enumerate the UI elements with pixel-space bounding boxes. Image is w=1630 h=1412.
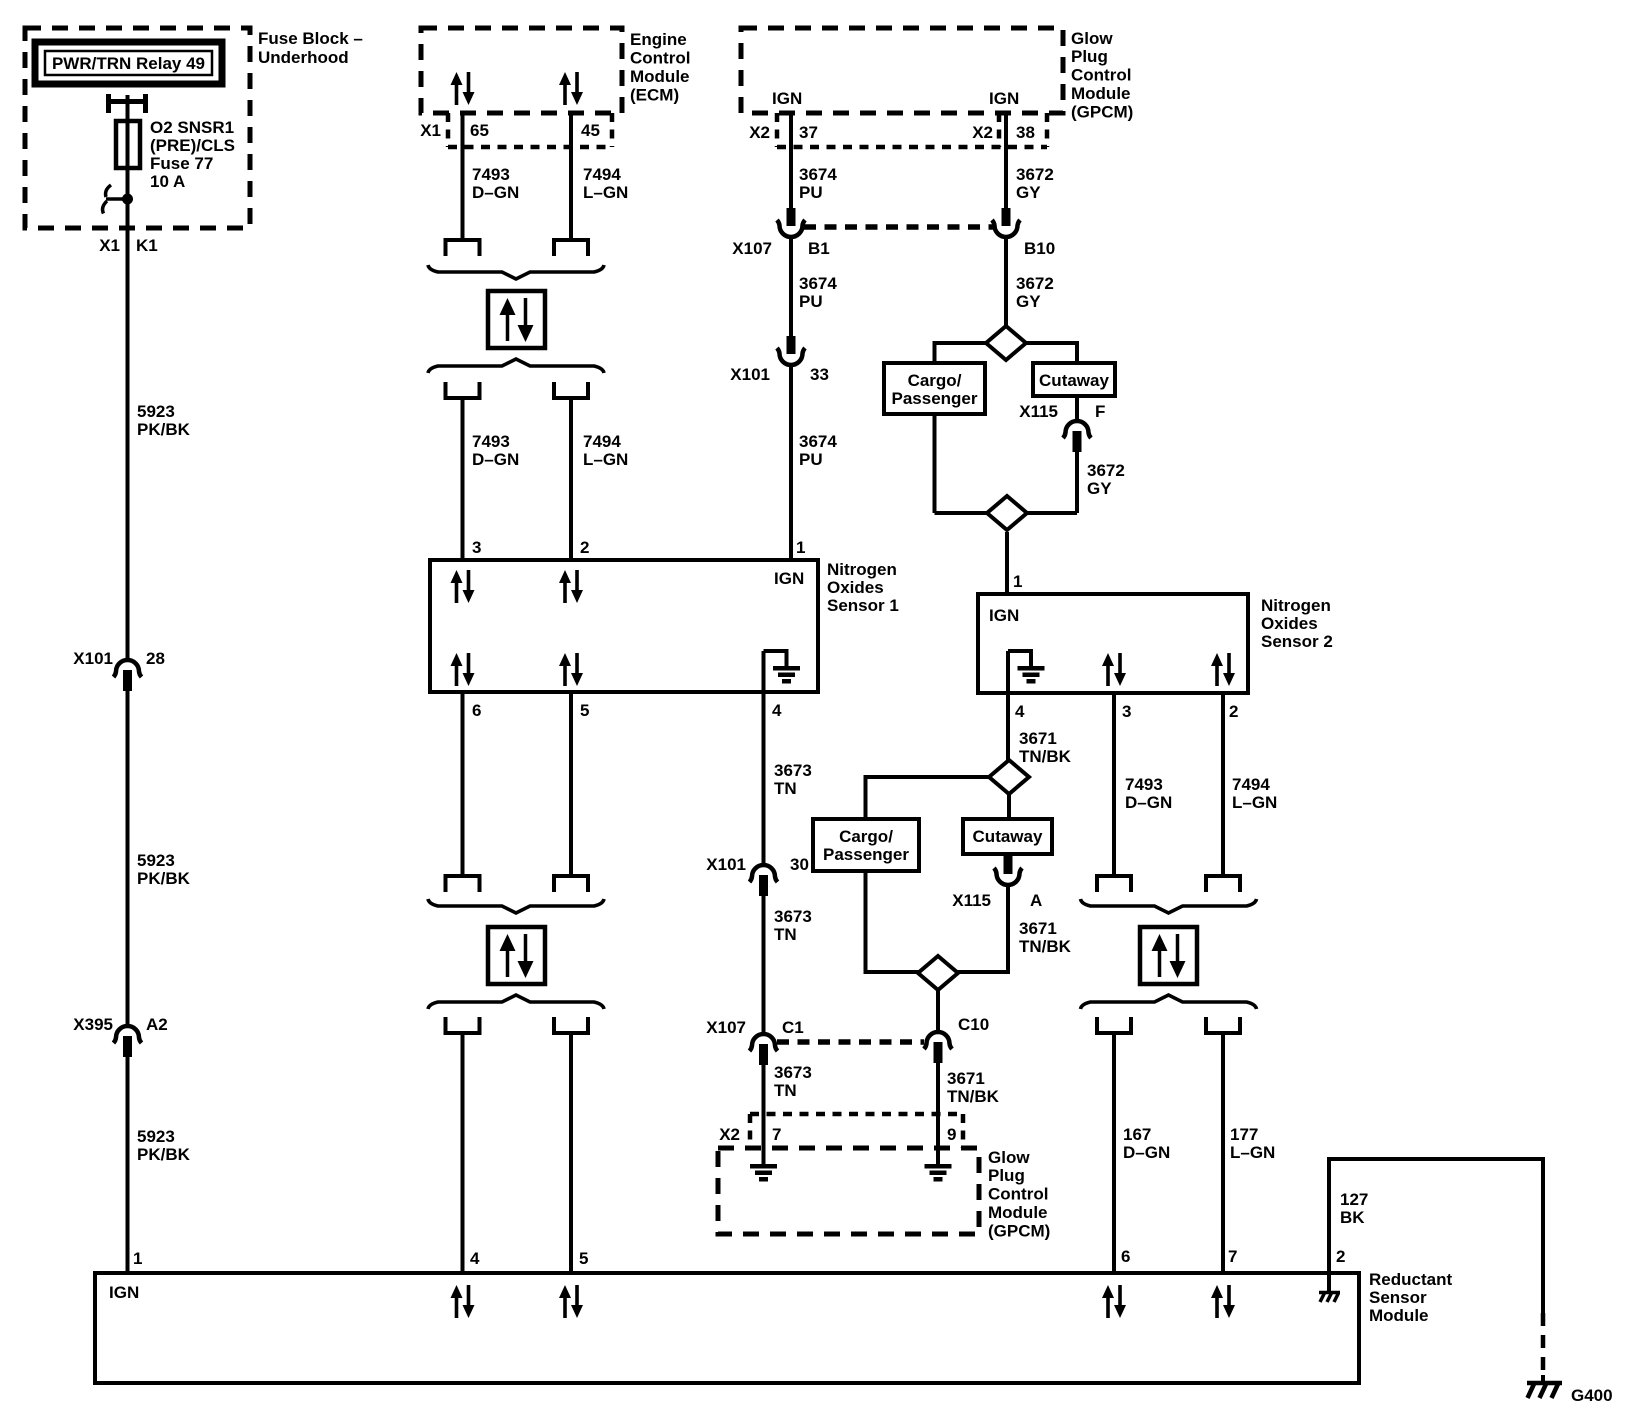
svg-text:3673: 3673 bbox=[774, 1063, 812, 1082]
svg-text:127: 127 bbox=[1340, 1190, 1368, 1209]
svg-text:PK/BK: PK/BK bbox=[137, 869, 191, 888]
svg-text:C10: C10 bbox=[958, 1015, 989, 1034]
svg-text:X107: X107 bbox=[706, 1018, 746, 1037]
svg-text:Module: Module bbox=[1369, 1306, 1429, 1325]
svg-text:7493: 7493 bbox=[1125, 775, 1163, 794]
svg-text:6: 6 bbox=[472, 701, 481, 720]
svg-text:IGN: IGN bbox=[774, 569, 804, 588]
svg-text:G400: G400 bbox=[1571, 1386, 1613, 1405]
svg-text:X115: X115 bbox=[952, 891, 991, 910]
svg-text:Glow: Glow bbox=[988, 1148, 1030, 1167]
svg-text:Sensor: Sensor bbox=[1369, 1288, 1427, 1307]
svg-text:D–GN: D–GN bbox=[1125, 793, 1172, 812]
svg-text:L–GN: L–GN bbox=[1230, 1143, 1275, 1162]
svg-text:3672: 3672 bbox=[1016, 274, 1054, 293]
svg-text:Engine: Engine bbox=[630, 30, 687, 49]
svg-text:X2: X2 bbox=[749, 123, 770, 142]
svg-text:Passenger: Passenger bbox=[823, 845, 909, 864]
svg-text:Plug: Plug bbox=[1071, 47, 1108, 66]
svg-text:5923: 5923 bbox=[137, 402, 175, 421]
svg-text:X107: X107 bbox=[732, 239, 772, 258]
svg-text:PU: PU bbox=[799, 292, 823, 311]
svg-text:7493: 7493 bbox=[472, 165, 510, 184]
svg-text:3674: 3674 bbox=[799, 165, 837, 184]
svg-text:IGN: IGN bbox=[989, 606, 1019, 625]
svg-text:D–GN: D–GN bbox=[1123, 1143, 1170, 1162]
svg-text:PWR/TRN Relay 49: PWR/TRN Relay 49 bbox=[52, 54, 205, 73]
svg-text:(PRE)/CLS: (PRE)/CLS bbox=[150, 136, 235, 155]
svg-text:Fuse Block –: Fuse Block – bbox=[258, 29, 363, 48]
svg-text:O2 SNSR1: O2 SNSR1 bbox=[150, 118, 234, 137]
svg-text:X1: X1 bbox=[420, 121, 441, 140]
svg-text:A2: A2 bbox=[146, 1015, 168, 1034]
svg-text:3672: 3672 bbox=[1087, 461, 1125, 480]
svg-text:Plug: Plug bbox=[988, 1166, 1025, 1185]
svg-text:BK: BK bbox=[1340, 1208, 1365, 1227]
svg-text:B10: B10 bbox=[1024, 239, 1055, 258]
svg-text:A: A bbox=[1030, 891, 1042, 910]
svg-text:(GPCM): (GPCM) bbox=[988, 1222, 1050, 1241]
svg-text:(ECM): (ECM) bbox=[630, 86, 679, 105]
svg-text:(GPCM): (GPCM) bbox=[1071, 103, 1133, 122]
svg-text:167: 167 bbox=[1123, 1125, 1151, 1144]
svg-text:7494: 7494 bbox=[1232, 775, 1270, 794]
svg-text:L–GN: L–GN bbox=[583, 450, 628, 469]
svg-text:7: 7 bbox=[772, 1125, 781, 1144]
svg-text:3: 3 bbox=[472, 538, 481, 557]
svg-text:7: 7 bbox=[1228, 1247, 1237, 1266]
svg-text:Module: Module bbox=[630, 67, 690, 86]
svg-text:D–GN: D–GN bbox=[472, 450, 519, 469]
svg-text:3: 3 bbox=[1122, 702, 1131, 721]
svg-text:3674: 3674 bbox=[799, 274, 837, 293]
svg-text:TN: TN bbox=[774, 779, 797, 798]
svg-text:28: 28 bbox=[146, 649, 165, 668]
svg-text:38: 38 bbox=[1016, 123, 1035, 142]
svg-text:45: 45 bbox=[581, 121, 600, 140]
svg-text:PK/BK: PK/BK bbox=[137, 420, 191, 439]
svg-text:7494: 7494 bbox=[583, 165, 621, 184]
svg-text:5923: 5923 bbox=[137, 1127, 175, 1146]
svg-text:Cutaway: Cutaway bbox=[973, 827, 1043, 846]
svg-text:IGN: IGN bbox=[109, 1283, 139, 1302]
svg-text:Cargo/: Cargo/ bbox=[908, 371, 962, 390]
svg-text:7493: 7493 bbox=[472, 432, 510, 451]
svg-text:B1: B1 bbox=[808, 239, 830, 258]
svg-text:X101: X101 bbox=[730, 365, 770, 384]
svg-text:IGN: IGN bbox=[772, 89, 802, 108]
svg-text:X395: X395 bbox=[73, 1015, 113, 1034]
svg-text:2: 2 bbox=[1229, 702, 1238, 721]
svg-text:X101: X101 bbox=[706, 855, 746, 874]
svg-text:K1: K1 bbox=[136, 236, 158, 255]
svg-text:2: 2 bbox=[580, 538, 589, 557]
svg-text:10 A: 10 A bbox=[150, 172, 185, 191]
svg-text:3674: 3674 bbox=[799, 432, 837, 451]
svg-text:Passenger: Passenger bbox=[892, 389, 978, 408]
svg-text:F: F bbox=[1095, 402, 1105, 421]
svg-text:PU: PU bbox=[799, 183, 823, 202]
svg-text:Nitrogen: Nitrogen bbox=[827, 560, 897, 579]
svg-text:6: 6 bbox=[1121, 1247, 1130, 1266]
svg-text:5923: 5923 bbox=[137, 851, 175, 870]
svg-text:3673: 3673 bbox=[774, 907, 812, 926]
svg-text:PU: PU bbox=[799, 450, 823, 469]
svg-text:TN/BK: TN/BK bbox=[1019, 747, 1072, 766]
svg-text:3671: 3671 bbox=[947, 1069, 985, 1088]
svg-text:GY: GY bbox=[1016, 183, 1041, 202]
svg-text:TN: TN bbox=[774, 1081, 797, 1100]
svg-text:1: 1 bbox=[133, 1249, 142, 1268]
svg-text:3673: 3673 bbox=[774, 761, 812, 780]
svg-text:7494: 7494 bbox=[583, 432, 621, 451]
svg-text:2: 2 bbox=[1336, 1247, 1345, 1266]
svg-text:X2: X2 bbox=[719, 1125, 740, 1144]
svg-text:Sensor 2: Sensor 2 bbox=[1261, 632, 1333, 651]
svg-text:Module: Module bbox=[988, 1203, 1048, 1222]
svg-text:GY: GY bbox=[1016, 292, 1041, 311]
svg-text:Glow: Glow bbox=[1071, 29, 1113, 48]
svg-text:3671: 3671 bbox=[1019, 729, 1057, 748]
svg-text:X1: X1 bbox=[99, 236, 120, 255]
svg-text:Underhood: Underhood bbox=[258, 48, 349, 67]
svg-text:4: 4 bbox=[470, 1249, 480, 1268]
svg-text:1: 1 bbox=[796, 538, 805, 557]
svg-text:5: 5 bbox=[579, 1249, 588, 1268]
svg-text:TN: TN bbox=[774, 925, 797, 944]
svg-text:Control: Control bbox=[630, 49, 690, 68]
svg-text:37: 37 bbox=[799, 123, 818, 142]
svg-text:TN/BK: TN/BK bbox=[1019, 937, 1072, 956]
svg-text:Control: Control bbox=[1071, 66, 1131, 85]
svg-text:5: 5 bbox=[580, 701, 589, 720]
svg-text:X115: X115 bbox=[1019, 402, 1058, 421]
svg-text:9: 9 bbox=[947, 1125, 956, 1144]
svg-text:Reductant: Reductant bbox=[1369, 1270, 1452, 1289]
svg-text:4: 4 bbox=[772, 701, 782, 720]
svg-text:X2: X2 bbox=[972, 123, 993, 142]
svg-text:177: 177 bbox=[1230, 1125, 1258, 1144]
svg-text:Sensor 1: Sensor 1 bbox=[827, 596, 899, 615]
svg-text:Cargo/: Cargo/ bbox=[839, 827, 893, 846]
svg-text:3671: 3671 bbox=[1019, 919, 1057, 938]
svg-text:IGN: IGN bbox=[989, 89, 1019, 108]
svg-text:TN/BK: TN/BK bbox=[947, 1087, 1000, 1106]
svg-text:L–GN: L–GN bbox=[583, 183, 628, 202]
svg-text:3672: 3672 bbox=[1016, 165, 1054, 184]
svg-text:GY: GY bbox=[1087, 479, 1112, 498]
svg-text:Fuse 77: Fuse 77 bbox=[150, 154, 213, 173]
svg-text:C1: C1 bbox=[782, 1018, 804, 1037]
svg-text:X101: X101 bbox=[73, 649, 113, 668]
svg-text:1: 1 bbox=[1013, 572, 1022, 591]
svg-text:Module: Module bbox=[1071, 84, 1131, 103]
svg-text:L–GN: L–GN bbox=[1232, 793, 1277, 812]
svg-text:PK/BK: PK/BK bbox=[137, 1145, 191, 1164]
svg-text:Control: Control bbox=[988, 1185, 1048, 1204]
svg-text:65: 65 bbox=[470, 121, 489, 140]
svg-text:4: 4 bbox=[1015, 702, 1025, 721]
svg-text:Oxides: Oxides bbox=[1261, 614, 1318, 633]
svg-text:Oxides: Oxides bbox=[827, 578, 884, 597]
svg-text:Cutaway: Cutaway bbox=[1039, 371, 1109, 390]
svg-text:33: 33 bbox=[810, 365, 829, 384]
svg-text:30: 30 bbox=[790, 855, 809, 874]
svg-text:D–GN: D–GN bbox=[472, 183, 519, 202]
svg-text:Nitrogen: Nitrogen bbox=[1261, 596, 1331, 615]
